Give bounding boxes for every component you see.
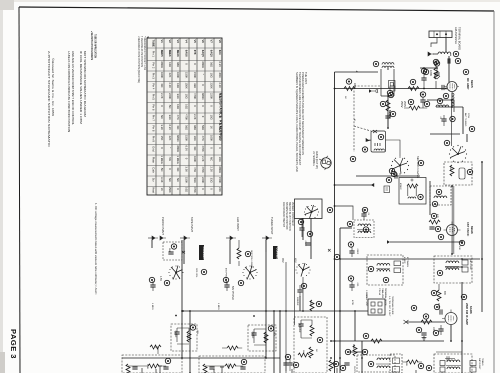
svg-text:A PHOTOFACT STANDARD NOTATION: A PHOTOFACT STANDARD NOTATION SCHEMATIC <box>47 51 51 148</box>
svg-text:560Ω: 560Ω <box>309 301 311 307</box>
svg-text:10Ω: 10Ω <box>185 104 189 109</box>
svg-text:3.3K: 3.3K <box>160 125 164 131</box>
svg-text:3.3K: 3.3K <box>185 167 189 173</box>
svg-text:150K: 150K <box>185 72 189 78</box>
svg-text:100K: 100K <box>429 70 433 76</box>
svg-text:6T8: 6T8 <box>193 50 197 55</box>
CONNECT label box 2 <box>273 246 280 261</box>
svg-text:VIEWED FROM REAR: VIEWED FROM REAR <box>291 202 294 226</box>
svg-text:©Howard W. Sams & Co., Inc. 19: ©Howard W. Sams & Co., Inc. 1959 <box>51 58 55 117</box>
wire: y290 stub <box>299 296 301 311</box>
boxed capacitor C13 <box>384 186 390 193</box>
node ref K <box>469 126 474 131</box>
svg-text:10Ω: 10Ω <box>168 62 172 67</box>
svg-text:50V PHONO: 50V PHONO <box>231 286 234 300</box>
svg-text:56Ω: 56Ω <box>210 62 214 67</box>
svg-text:GUIDE (KEY UP): GUIDE (KEY UP) <box>315 151 317 169</box>
svg-text:45V: 45V <box>294 258 298 263</box>
bottom IF transformer T5 <box>426 352 484 373</box>
svg-text:V1: V1 <box>160 40 164 44</box>
switch wafer S1b <box>295 263 310 311</box>
svg-text:THE UNIT.: THE UNIT. <box>304 72 308 85</box>
svg-text:680Ω: 680Ω <box>160 62 164 69</box>
svg-text:VOL: VOL <box>196 330 198 335</box>
svg-text:6AQ5: 6AQ5 <box>210 50 214 58</box>
svg-text:TAPE INPUT: TAPE INPUT <box>190 217 194 232</box>
converter ref <box>386 177 391 182</box>
note: see parts list <box>90 31 97 60</box>
capacitor C14 chain <box>420 92 429 108</box>
antenna coil box <box>427 100 454 112</box>
svg-text:10Ω: 10Ω <box>185 94 189 99</box>
wire: input drop tape <box>183 240 185 264</box>
capacitor C5 <box>361 207 367 220</box>
svg-text:IF TRANS: IF TRANS <box>406 257 409 267</box>
svg-text:6X4: 6X4 <box>218 50 222 55</box>
svg-text:6.3V: 6.3V <box>168 125 172 131</box>
wire: left audio vertical <box>181 240 183 358</box>
svg-text:6BE6: 6BE6 <box>168 50 172 57</box>
svg-text:AND ARE AS VIEWED FROM SHAFT E: AND ARE AS VIEWED FROM SHAFT END OF CONT… <box>71 51 75 125</box>
svg-text:NOT SHOWN ON SCHEMATIC DIAGRAM: NOT SHOWN ON SCHEMATIC DIAGRAM <box>83 51 87 117</box>
svg-text:.02MF: .02MF <box>304 240 306 247</box>
svg-text:OFF-VOL: OFF-VOL <box>195 268 197 278</box>
wire: audio vertical 3 <box>265 240 267 358</box>
svg-text:10Ω: 10Ω <box>176 83 180 88</box>
wire: osc feed vertical <box>451 100 453 146</box>
wire: ant coil to tube <box>448 56 450 82</box>
svg-text:NC: NC <box>193 147 197 151</box>
AM antenna IF can T6 <box>430 186 451 205</box>
resistor R14 <box>403 99 427 110</box>
svg-text:1 MEG: 1 MEG <box>218 124 222 132</box>
svg-text:Grid: Grid <box>152 146 156 152</box>
svg-text:PAGE 3: PAGE 3 <box>9 329 18 359</box>
svg-text:2.2K: 2.2K <box>193 114 197 120</box>
svg-text:45V PHONO IN: 45V PHONO IN <box>225 268 227 284</box>
svg-text:6.3V: 6.3V <box>218 62 222 68</box>
wire: antenna drop <box>445 37 447 52</box>
svg-text:OSC: OSC <box>449 166 451 171</box>
svg-text:68Ω: 68Ω <box>193 125 197 130</box>
svg-text:Pin 6: Pin 6 <box>152 104 156 111</box>
wire: ratio det feed <box>445 266 462 268</box>
coupling network box right channel <box>248 325 276 351</box>
capacitor C2 <box>421 68 426 89</box>
svg-text:1 MEG: 1 MEG <box>151 303 153 310</box>
svg-text:V6: V6 <box>201 40 205 44</box>
svg-text:*: * <box>168 147 172 148</box>
svg-text:1 MEG: 1 MEG <box>176 156 180 164</box>
svg-text:22K: 22K <box>419 92 421 96</box>
border frame <box>19 7 20 373</box>
svg-text:TUBE OR APPLICATION: TUBE OR APPLICATION <box>94 34 97 58</box>
svg-text:2ND FM IF AMP: 2ND FM IF AMP <box>465 303 469 325</box>
svg-text:1-6, TEL CKT & OUT: 1-6, TEL CKT & OUT <box>388 296 390 317</box>
svg-text:56Ω: 56Ω <box>185 125 189 130</box>
wire: tube row horizontal <box>335 88 447 90</box>
svg-text:33Ω: 33Ω <box>218 94 222 99</box>
svg-text:2.2K: 2.2K <box>168 83 172 89</box>
svg-text:33Ω: 33Ω <box>193 83 197 88</box>
FM oscillator coil box L3 <box>444 162 473 185</box>
svg-text:470K: 470K <box>185 114 189 120</box>
resistor R12 <box>363 333 382 343</box>
wire: detector row horizontal <box>331 340 444 342</box>
svg-text:TRANS: TRANS <box>481 358 484 366</box>
svg-text:47Ω: 47Ω <box>176 115 180 120</box>
svg-text:150K: 150K <box>168 187 172 193</box>
svg-text:1K: 1K <box>210 126 214 129</box>
svg-text:33Ω: 33Ω <box>168 115 172 120</box>
choke L5 boxed <box>357 355 395 372</box>
wire: IF T1 drop <box>387 68 389 70</box>
wire: mid row y185 <box>335 184 375 186</box>
svg-text:Pin 7: Pin 7 <box>152 115 156 122</box>
svg-text:VOL: VOL <box>273 332 275 337</box>
svg-text:22K: 22K <box>218 187 222 192</box>
svg-text:.005MF: .005MF <box>174 330 176 338</box>
part callout text <box>378 288 387 306</box>
loop antenna coil L1 <box>428 51 459 56</box>
tube V1 FM RF AMP 6BC5 <box>442 69 474 93</box>
capacitor C16 <box>348 276 358 291</box>
svg-text:150K: 150K <box>193 72 197 78</box>
svg-text:220K: 220K <box>146 364 148 370</box>
svg-text:Cath: Cath <box>152 167 156 173</box>
svg-text:RATIO DET: RATIO DET <box>469 259 472 271</box>
note: photofact standard notation <box>47 51 55 148</box>
wire: tube3 row <box>406 321 445 323</box>
svg-text:TERMINAL GUIDE: TERMINAL GUIDE <box>391 296 394 315</box>
function switch box S1 <box>281 199 333 325</box>
svg-text:SECTION 1 GANG: SECTION 1 GANG <box>416 156 420 178</box>
svg-text:Pin 9: Pin 9 <box>152 136 156 143</box>
svg-text:100K: 100K <box>193 156 197 162</box>
svg-text:680Ω: 680Ω <box>201 62 205 69</box>
svg-text:*: * <box>201 74 205 75</box>
svg-text:NC: NC <box>176 126 180 130</box>
resistor R7 <box>429 213 441 231</box>
svg-text:TERMINAL BOARD: TERMINAL BOARD <box>458 27 462 50</box>
table cell entries <box>152 40 223 194</box>
grid capacitor C8 <box>434 304 442 314</box>
tuning gang section 2 <box>444 140 467 163</box>
svg-text:22K: 22K <box>168 136 172 141</box>
B+ dropping chain resistor R5 <box>380 100 395 128</box>
svg-text:Pin 4: Pin 4 <box>152 83 156 90</box>
wire: y228 link <box>340 227 352 229</box>
cathode capacitor C9 <box>433 325 443 336</box>
svg-text:RATIO DET: RATIO DET <box>478 358 481 370</box>
svg-text:1 MEG: 1 MEG <box>217 303 219 310</box>
svg-text:680Ω: 680Ω <box>176 135 180 142</box>
svg-text:• MEASURED IN FM POSITION (RAD: • MEASURED IN FM POSITION (RADIO SW) <box>137 36 140 83</box>
bottom mid caps <box>283 354 292 371</box>
svg-text:NC: NC <box>160 84 164 88</box>
svg-text:100Ω: 100Ω <box>352 344 354 350</box>
svg-text:680MMF: 680MMF <box>296 297 298 306</box>
capacitor C15 <box>439 115 455 126</box>
svg-text:680Ω: 680Ω <box>218 167 222 174</box>
svg-text:Heat: Heat <box>152 187 156 193</box>
svg-text:Pin 2: Pin 2 <box>152 62 156 69</box>
resistor R11 100ohm <box>345 344 367 356</box>
wire: y311 right stub <box>354 311 356 341</box>
svg-text:NC: NC <box>176 168 180 172</box>
svg-text:56Ω: 56Ω <box>201 125 205 130</box>
svg-text:10Ω: 10Ω <box>176 104 180 109</box>
CONNECT label box <box>199 245 206 262</box>
wire: tube V1 cathode drop <box>451 93 453 107</box>
note: if coil resistance <box>79 51 87 124</box>
AM antenna terminal board <box>429 27 462 50</box>
svg-text:470K: 470K <box>193 187 197 193</box>
svg-text:220K: 220K <box>201 177 205 183</box>
trimmer capacitor C1 <box>434 58 460 66</box>
svg-text:1ST FM IF: 1ST FM IF <box>466 222 470 236</box>
svg-text:AUX INPUT: AUX INPUT <box>236 217 240 231</box>
svg-text:LS TERMINAL: LS TERMINAL <box>312 151 315 167</box>
AGC ref on dashed line <box>350 156 355 161</box>
svg-text:470K: 470K <box>263 335 265 341</box>
wire: right bus lower <box>461 282 463 352</box>
phono input jack J1 <box>148 217 166 240</box>
svg-text:68K: 68K <box>443 291 445 296</box>
resistor R1 <box>423 63 438 89</box>
wire: B+ long horizontal <box>340 258 480 260</box>
svg-text:COIL: COIL <box>467 113 469 119</box>
svg-text:2.2K: 2.2K <box>160 93 164 99</box>
models note text block <box>295 72 308 172</box>
bottom cap C12 <box>340 363 349 371</box>
misc small labels <box>225 92 461 373</box>
svg-text:6BA6: 6BA6 <box>176 50 180 57</box>
svg-text:2.2K: 2.2K <box>210 167 214 173</box>
wire: tube V4 plate drop <box>450 325 452 341</box>
svg-text:10Ω: 10Ω <box>210 73 214 78</box>
svg-text:10Ω: 10Ω <box>218 157 222 162</box>
svg-text:150K: 150K <box>185 135 189 141</box>
resistor R16 <box>309 347 317 358</box>
junction arrow y185 <box>371 183 374 187</box>
tube V3 1st FM IF <box>438 222 474 246</box>
wire: osc section vertical <box>466 134 468 142</box>
tube V4 2nd FM IF <box>442 294 473 327</box>
svg-text:470MMF: 470MMF <box>298 324 300 333</box>
wire: input drop aux <box>229 240 231 264</box>
capacitor C6 <box>348 242 358 257</box>
svg-text:6BK5: 6BK5 <box>160 50 164 57</box>
svg-text:OUTPUT: OUTPUT <box>353 366 355 373</box>
svg-text:1K: 1K <box>160 188 164 191</box>
svg-text:680Ω: 680Ω <box>201 93 205 100</box>
svg-text:100K: 100K <box>210 135 214 141</box>
svg-text:*: * <box>218 105 222 106</box>
svg-text:470K: 470K <box>351 300 353 306</box>
capacitor C11 680MMF <box>296 283 307 306</box>
svg-text:10K: 10K <box>458 246 460 250</box>
node ref N <box>432 201 437 206</box>
wire: T2 right drop <box>429 181 431 215</box>
svg-text:Pin 3: Pin 3 <box>152 73 156 80</box>
wire: right bus upper <box>462 107 464 134</box>
svg-text:70MA USE: 70MA USE <box>381 288 384 299</box>
svg-text:2.2K: 2.2K <box>201 156 205 162</box>
wire: audio vertical 4 <box>273 311 275 373</box>
notes list 1-6 measurement conditions <box>94 203 98 295</box>
wire: IF out row <box>390 241 462 243</box>
tone control switch S3 <box>201 265 257 299</box>
svg-text:47K: 47K <box>436 214 438 218</box>
volume control switch S2 <box>149 265 197 291</box>
svg-text:33Ω: 33Ω <box>210 178 214 183</box>
svg-text:470K: 470K <box>186 334 188 340</box>
svg-text:.5Ω: .5Ω <box>168 104 172 108</box>
bottom mid resistor R13 <box>329 360 339 371</box>
svg-text:1 MEG: 1 MEG <box>160 156 164 164</box>
svg-text:SHOWN IN AM POSITION: SHOWN IN AM POSITION <box>285 202 288 230</box>
wire: mid row y176 <box>356 175 420 177</box>
svg-text:250V: 250V <box>400 101 404 108</box>
svg-text:56Ω: 56Ω <box>193 178 197 183</box>
svg-text:220K: 220K <box>210 83 214 89</box>
svg-text:10Ω: 10Ω <box>193 136 197 141</box>
svg-text:1K: 1K <box>218 136 222 139</box>
aux input jack J3 <box>226 217 240 240</box>
svg-text:150K: 150K <box>185 83 189 89</box>
svg-text:Pin 1: Pin 1 <box>152 51 156 58</box>
AM IF transformer T2 <box>391 171 426 204</box>
wire: y107 link <box>436 106 463 108</box>
table footnotes <box>137 36 148 83</box>
electrolytic ref <box>402 360 424 369</box>
filter box partial <box>390 354 407 373</box>
svg-text:PHONO INPUT: PHONO INPUT <box>161 217 165 235</box>
svg-text:.05MF: .05MF <box>356 248 358 255</box>
wire: long left vertical bus <box>334 72 336 373</box>
AGC stub cap <box>433 59 440 79</box>
svg-text:33Ω: 33Ω <box>176 94 180 99</box>
svg-text:● SEE PARTS LIST FOR ALTERNATE: ● SEE PARTS LIST FOR ALTERNATE <box>90 31 93 60</box>
capacitor C7 <box>299 218 312 247</box>
svg-text:† READING IN FM POSITION: † READING IN FM POSITION <box>140 36 143 67</box>
svg-text:IF COIL RESISTANCE VALUES UNDE: IF COIL RESISTANCE VALUES UNDER 1 OHM <box>79 51 83 124</box>
svg-text:6AQ5: 6AQ5 <box>201 50 205 58</box>
svg-text:RF AMP: RF AMP <box>466 78 470 89</box>
svg-text:*: * <box>354 118 356 123</box>
svg-text:AM-FM RADIO SWITCH: AM-FM RADIO SWITCH <box>282 202 285 227</box>
svg-text:AM ANTENNA: AM ANTENNA <box>454 27 458 44</box>
svg-text:V3: V3 <box>176 40 180 44</box>
svg-text:100K: 100K <box>160 72 164 78</box>
output stage box right <box>199 346 265 373</box>
svg-text:V5: V5 <box>193 40 197 44</box>
svg-text:NC: NC <box>160 115 164 119</box>
resistor R3 <box>408 79 419 90</box>
svg-text:47Ω: 47Ω <box>193 167 197 172</box>
svg-text:2.2K: 2.2K <box>218 83 222 89</box>
svg-text:470K: 470K <box>201 146 205 152</box>
svg-text:220K: 220K <box>168 93 172 99</box>
muting dashed box <box>163 242 185 260</box>
svg-text:6.3V: 6.3V <box>185 146 189 152</box>
svg-text:Pin 5: Pin 5 <box>152 94 156 101</box>
mixer row: capacitor C4 <box>389 168 397 178</box>
svg-text:.5Ω: .5Ω <box>160 167 164 171</box>
tape input jack J2 <box>180 217 194 240</box>
wire: audio vertical 6 <box>285 262 287 373</box>
svg-text:LABELS ON CONTROLS INDICATE FU: LABELS ON CONTROLS INDICATE FUNCTION POS… <box>67 51 71 132</box>
wire: switch drop 2 <box>310 218 312 259</box>
svg-text:15K: 15K <box>160 136 164 141</box>
wire: audio bottom bus <box>122 357 280 359</box>
svg-text:V8: V8 <box>218 40 222 44</box>
ratio detector transformer T3 <box>367 255 409 285</box>
svg-text:68Ω: 68Ω <box>218 73 222 78</box>
svg-text:TUNER INPUT: TUNER INPUT <box>270 217 274 235</box>
wire: y134 link <box>430 133 460 135</box>
svg-text:Scr: Scr <box>152 178 156 182</box>
svg-text:4.5V: 4.5V <box>159 276 162 281</box>
svg-text:22K: 22K <box>168 73 172 78</box>
svg-text:470K: 470K <box>193 93 197 99</box>
svg-text:Plate: Plate <box>152 157 156 164</box>
svg-text:6AU6: 6AU6 <box>185 50 189 57</box>
svg-text:TUBE: TUBE <box>152 40 156 48</box>
svg-text:100K: 100K <box>432 327 434 333</box>
FM detector transformer T4 <box>434 256 472 283</box>
svg-text:C15 1A: C15 1A <box>378 288 381 296</box>
wire: switch drop 1 <box>302 218 304 240</box>
svg-text:.5Ω: .5Ω <box>168 157 172 161</box>
svg-text:220K: 220K <box>353 83 356 89</box>
svg-text:V7: V7 <box>210 40 214 44</box>
svg-text:10Ω: 10Ω <box>210 115 214 120</box>
choke coil L6 <box>436 98 449 107</box>
svg-text:POWER REPLACEMENT AND ARE NOT: POWER REPLACEMENT AND ARE NOT NECESSARIL… <box>301 72 305 155</box>
svg-text:455KC: 455KC <box>399 183 401 190</box>
svg-text:3.3K: 3.3K <box>160 177 164 183</box>
wire: audio vertical 5 <box>279 311 281 373</box>
svg-text:V2: V2 <box>168 40 172 44</box>
svg-text:CONNECT: CONNECT <box>202 247 206 262</box>
tuner input jack J4 <box>262 217 274 252</box>
wire: audio horizontal <box>182 310 368 312</box>
svg-text:6BC5: 6BC5 <box>470 80 474 88</box>
wire: top horizontal to IF transformer <box>335 71 379 73</box>
output socket terminal guide <box>365 294 394 317</box>
svg-text:*: * <box>356 70 358 75</box>
LS terminal guide symbol <box>312 151 331 170</box>
svg-text:NC: NC <box>168 178 172 182</box>
svg-text:100K: 100K <box>176 72 180 78</box>
resistor R9 68K <box>431 284 445 309</box>
resistor R10 560 ohm <box>309 300 322 311</box>
de-emphasis network box <box>293 317 327 373</box>
tuning gang section 1 <box>391 156 424 178</box>
dashed AGC line vertical <box>354 86 380 152</box>
svg-text:.01MF: .01MF <box>227 363 229 370</box>
svg-text:ANT TUNING: ANT TUNING <box>464 113 467 127</box>
svg-text:150K: 150K <box>185 177 189 183</box>
svg-text:470K: 470K <box>201 167 205 173</box>
wire: input drop phono <box>151 240 153 248</box>
volume control ref <box>334 254 339 259</box>
svg-text:1. DC voltage measurements ta: 1. DC voltage measurements taken with va… <box>94 203 98 295</box>
resistor R8 100K <box>404 305 435 333</box>
coupling network box left channel <box>171 324 197 351</box>
